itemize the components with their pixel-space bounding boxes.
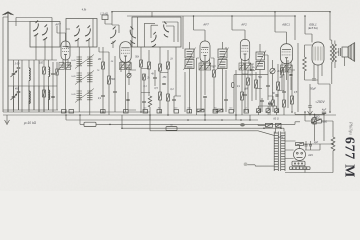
svg-text:AF7: AF7	[202, 23, 209, 27]
IF transformer T3	[255, 51, 267, 72]
label r8	[162, 76, 168, 79]
wire U3 grid cap	[194, 16, 206, 41]
resistor R4	[108, 76, 111, 84]
tube U4 AB2	[240, 39, 249, 60]
svg-text:4µF: 4µF	[322, 109, 327, 112]
wire jogs E	[242, 70, 284, 96]
bus comp c	[101, 110, 106, 113]
wire box2 leads	[66, 19, 93, 48]
wire t3 links	[260, 44, 268, 112]
bus heater a	[80, 115, 295, 124]
wire box1 leads	[36, 22, 52, 61]
svg-text:AZ1: AZ1	[307, 153, 313, 157]
label ABC1 (U5)	[281, 23, 290, 27]
wire U6 leads	[305, 45, 323, 84]
brand 677 M	[343, 137, 358, 178]
label c22	[272, 93, 275, 95]
tuning coil L3b	[49, 67, 50, 77]
wire t2 links	[223, 16, 246, 115]
svg-text:4µF: 4µF	[314, 141, 319, 144]
label 5000	[322, 121, 328, 124]
resistor R10	[159, 92, 162, 100]
label out1	[310, 87, 316, 91]
label blk1b	[39, 62, 44, 65]
tube U6 EBL1	[312, 42, 324, 65]
capacitor C17	[312, 79, 316, 80]
tuning coil L3	[29, 68, 30, 81]
wire 250v	[310, 84, 330, 106]
capacitor C7b	[126, 99, 129, 100]
trimmer T (osc)	[127, 73, 131, 77]
label AK2 (U2)	[100, 12, 108, 16]
wire c19 down	[323, 114, 325, 141]
osc coil contact	[164, 22, 169, 38]
wire ot down	[330, 62, 332, 112]
label wp3	[212, 67, 215, 69]
ground bus	[3, 114, 336, 116]
osc electrode b	[130, 27, 136, 44]
wire rect links	[285, 141, 333, 159]
rectifier U7 AZ1	[294, 145, 306, 161]
label c21	[237, 85, 241, 88]
output transformer T4	[330, 44, 336, 62]
svg-text:25k: 25k	[162, 76, 168, 79]
osc electrode a	[110, 27, 116, 44]
bus comp labels	[143, 107, 247, 109]
label 220V	[277, 137, 284, 139]
wire jogs C	[141, 69, 168, 100]
wire U2 grid cap	[105, 12, 119, 33]
wire r26	[272, 96, 274, 112]
label S2	[71, 76, 76, 78]
label det4	[294, 91, 298, 94]
wire u3 cap down	[204, 98, 206, 115]
label tone	[170, 124, 173, 126]
capacitor C12	[250, 69, 254, 70]
note script	[315, 100, 325, 104]
label box2 top	[82, 9, 87, 12]
wire r24 left	[305, 112, 311, 121]
bus comp i	[213, 110, 218, 113]
dot sw a	[263, 127, 265, 129]
resistor R6b	[143, 74, 146, 80]
filter resistor R23	[296, 143, 304, 146]
dial lamp E1	[257, 109, 261, 113]
wire U3 leads	[197, 58, 217, 115]
svg-text:Philips: Philips	[349, 121, 354, 135]
bus mains a	[295, 122, 300, 125]
resistor R26	[272, 100, 275, 106]
bus comp k	[244, 110, 249, 113]
coil contact c	[74, 26, 79, 42]
resistor R9	[167, 62, 170, 69]
resistor R20	[283, 100, 286, 107]
IF coil pack S2	[75, 71, 94, 85]
winding pair U5	[281, 65, 293, 72]
bus comp g	[174, 110, 179, 113]
coil contact d	[85, 26, 90, 42]
label det5	[243, 88, 247, 91]
svg-text:AF2: AF2	[240, 23, 247, 27]
mains switch S1	[276, 123, 282, 127]
resistor R1b	[56, 69, 58, 75]
wire bus2	[127, 15, 295, 17]
winding pair U3	[199, 63, 211, 70]
wire c10b	[225, 70, 227, 112]
label r25	[276, 71, 280, 73]
wire choke up	[321, 121, 333, 137]
capacitor C20 (U5)	[289, 74, 292, 75]
bus comp j	[229, 110, 234, 113]
label S2 value	[97, 70, 100, 72]
svg-text:60 Ω: 60 Ω	[273, 117, 278, 120]
brand Philips	[349, 121, 354, 135]
label c9d	[170, 88, 174, 91]
svg-text:100Ω: 100Ω	[313, 116, 319, 119]
HT capacitor C23	[305, 145, 313, 146]
label r9	[170, 58, 173, 61]
capacitor C16	[268, 103, 272, 104]
wire speaker leads	[332, 52, 345, 84]
wire ant to box	[8, 18, 52, 27]
resistor R13	[216, 109, 223, 112]
shield box L1	[30, 22, 60, 48]
svg-text:AF7: AF7	[54, 23, 61, 27]
grid stopper R5	[102, 15, 108, 20]
oscillator padder C8	[148, 96, 151, 107]
wire U6 grid	[305, 16, 312, 42]
wire cluster C	[141, 47, 181, 115]
label S3	[71, 94, 76, 96]
wire osc inner	[138, 12, 178, 47]
tube U2 AK2	[120, 42, 131, 63]
wire U2 leads	[121, 61, 136, 112]
capacitor C10	[203, 96, 207, 97]
dial lamp E2	[266, 109, 270, 113]
label det3	[258, 76, 263, 79]
wire HT loop	[285, 141, 333, 173]
power transformer T5	[274, 132, 285, 172]
wire U1 leads	[63, 60, 72, 112]
svg-text:100: 100	[39, 62, 44, 65]
capacitor C7	[142, 101, 146, 102]
wire U4 leads	[242, 59, 255, 91]
label AF7 (U1)	[54, 23, 61, 27]
capacitor C9	[172, 99, 176, 100]
coil contact a	[33, 21, 38, 37]
label AB2 (U4)	[240, 23, 247, 27]
loudspeaker LS1	[339, 42, 355, 61]
trimmer capacitor C3b	[17, 91, 21, 92]
note mu	[24, 121, 37, 125]
label C6 value	[98, 97, 102, 100]
label r26	[268, 103, 272, 105]
wire cluster E	[242, 43, 298, 115]
variable capacitor C1	[11, 71, 17, 77]
winding pair U4	[239, 63, 251, 70]
wire lamp stubs	[259, 106, 277, 115]
mains plug	[244, 162, 248, 166]
label r10	[154, 87, 158, 90]
capacitor C9b	[153, 77, 157, 78]
svg-text:3-30: 3-30	[15, 63, 20, 66]
svg-text:ABC1: ABC1	[281, 23, 290, 27]
wire U5 grid cap	[275, 12, 287, 44]
resistor R2	[43, 90, 46, 97]
capacitor C13	[266, 85, 270, 86]
resistor R1	[43, 67, 46, 74]
wire lamp	[295, 112, 324, 141]
wire U1 grid cap	[57, 26, 66, 41]
capacitor C15	[260, 100, 264, 101]
bus comp h	[187, 110, 192, 113]
dial lamp resistor R22	[313, 118, 316, 125]
label blk2a	[15, 88, 20, 91]
resistor R11	[167, 94, 170, 101]
resistor R12	[197, 109, 204, 112]
svg-text:EBL1: EBL1	[309, 23, 317, 27]
label c19	[322, 109, 327, 112]
cathode resistor R21	[303, 57, 307, 71]
bus comp d	[124, 110, 129, 113]
dial lamp E3	[275, 109, 279, 113]
wire block2	[3, 86, 58, 112]
shield box L2	[66, 19, 97, 48]
ground (output)	[308, 107, 313, 115]
padding capacitor C4	[51, 96, 55, 97]
voltage selector	[292, 161, 305, 166]
wire AF coupling	[234, 75, 268, 112]
IF coil pack S1	[75, 55, 94, 69]
bus AVC	[66, 115, 258, 120]
label r6b	[146, 78, 150, 80]
svg-text:50µF: 50µF	[310, 87, 316, 91]
ground (antenna)	[5, 115, 10, 125]
resistor R25 (U5 cathode)	[281, 68, 284, 75]
svg-text:465: 465	[15, 88, 20, 91]
wire coil pack links	[79, 47, 90, 115]
svg-text:2M: 2M	[243, 88, 247, 91]
resistor R15	[241, 92, 244, 100]
svg-text:µ≈10 kΩ: µ≈10 kΩ	[24, 121, 37, 125]
capacitor C14	[282, 91, 286, 92]
resistor R3	[102, 62, 105, 69]
smoothing choke L5	[331, 137, 335, 151]
tone box	[166, 127, 177, 131]
tube U1 AF7	[61, 41, 70, 60]
wire block1	[8, 60, 57, 112]
wire left rail	[3, 17, 8, 112]
label c23	[314, 141, 319, 144]
wire diag to mains	[252, 131, 274, 136]
wire sw links	[258, 124, 284, 133]
IF transformer T1	[184, 48, 196, 71]
capacitor C11	[243, 94, 247, 95]
wire rect to selector	[299, 161, 301, 167]
anode blocking C18	[308, 106, 312, 107]
label EBL1 (U6)	[308, 23, 318, 31]
bus comp f	[157, 110, 162, 113]
label r6	[135, 56, 140, 59]
wire earth rail	[3, 111, 150, 113]
capacitor C19	[322, 112, 326, 113]
tuning coil L4	[29, 91, 30, 104]
resistor R16	[247, 78, 250, 85]
bus heater b	[122, 115, 284, 128]
label R4 value	[111, 78, 116, 81]
label c9c	[151, 73, 154, 76]
wire top bus B+	[112, 11, 330, 13]
label S1	[71, 60, 76, 62]
resistor R7	[148, 62, 151, 69]
reservoir cap blob	[240, 123, 245, 126]
winding pair U1	[59, 63, 71, 70]
label c7	[143, 85, 147, 88]
capacitor C6	[101, 95, 105, 96]
variable capacitor C3	[11, 94, 17, 100]
resistor R8	[159, 64, 162, 71]
label det2	[279, 76, 282, 79]
wire U5 leads	[282, 16, 295, 90]
oscillator box	[132, 17, 181, 47]
tube U5 ABC1	[281, 44, 293, 64]
capacitor C5	[113, 91, 117, 92]
label S3 value	[110, 61, 114, 63]
resistor R19	[291, 96, 294, 104]
wire c7b	[126, 68, 137, 110]
wire cluster B	[99, 47, 115, 115]
wire ot top	[330, 12, 335, 44]
osc trimmer	[151, 32, 156, 47]
label R3 value	[97, 58, 101, 61]
fuse F1	[266, 123, 273, 127]
wire d1	[211, 58, 214, 112]
screen capacitor C10b	[224, 99, 228, 100]
label r24	[313, 116, 319, 119]
wire bus stubs	[150, 115, 250, 120]
svg-text:4,5k: 4,5k	[82, 9, 87, 12]
wire osc electrode leads	[113, 41, 131, 48]
label det1	[249, 74, 253, 77]
volume potentiometer P1	[270, 68, 275, 73]
IF transformer T2	[217, 48, 229, 71]
bus comp b	[69, 110, 74, 113]
label mains sw	[273, 117, 278, 120]
resistor R6	[140, 60, 143, 67]
svg-text:≈250V: ≈250V	[315, 100, 325, 104]
tuning coil L4b	[49, 90, 50, 100]
field coil box	[84, 122, 96, 126]
bus HT	[150, 115, 252, 131]
label AF7 (U3)	[202, 23, 209, 27]
label AZ1	[307, 153, 313, 157]
svg-text:(EL5 8w): (EL5 8w)	[308, 27, 318, 30]
wire big frame	[183, 16, 190, 112]
coil contact b	[42, 25, 47, 41]
bus comp a	[62, 110, 67, 113]
dot sw b	[280, 127, 282, 129]
tube U3 AF7	[200, 41, 210, 62]
capacitor C9c	[162, 83, 166, 84]
winding pair U2	[120, 63, 132, 70]
antenna	[3, 12, 14, 112]
capacitor C22	[275, 95, 278, 96]
svg-text:677 M: 677 M	[343, 137, 358, 178]
label wp4	[251, 67, 255, 69]
resistor R18	[277, 82, 280, 90]
resistor R24	[311, 119, 321, 123]
electrolytic C21	[232, 82, 235, 87]
trimmer capacitor C1b	[17, 67, 21, 68]
bus comp e	[143, 110, 148, 113]
IF coil pack S3	[75, 89, 94, 103]
resistor R17	[255, 80, 258, 88]
padding capacitor C2	[51, 73, 55, 74]
wire mains cord	[247, 165, 274, 166]
voltage strip	[290, 167, 311, 170]
decoupling R14	[213, 70, 216, 77]
bus dots	[187, 119, 251, 121]
svg-text:2M: 2M	[97, 58, 101, 61]
label blk1a	[15, 63, 20, 66]
